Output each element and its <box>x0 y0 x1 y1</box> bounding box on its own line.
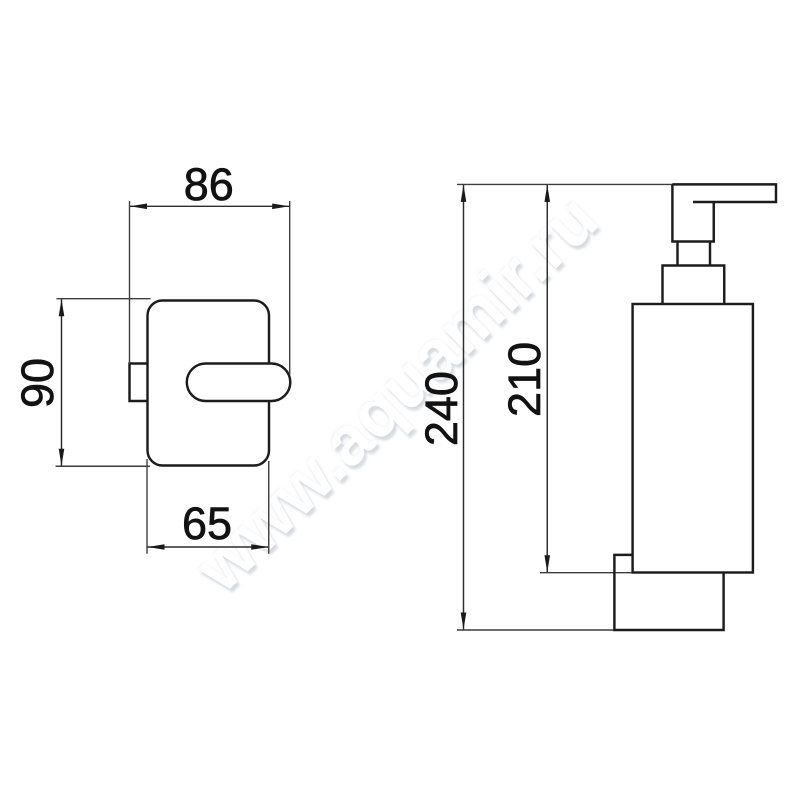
wall plate body (front view, rounded square) <box>148 301 270 466</box>
dim 240 arrow bottom <box>461 613 467 630</box>
dim 90 line <box>61 299 63 466</box>
dim 90 arrow top <box>59 299 65 316</box>
svg-text:86: 86 <box>184 159 234 210</box>
pump neck <box>678 242 711 266</box>
dim 90 extension line top <box>57 298 151 300</box>
bottle body (side view) <box>633 304 753 573</box>
dim 240 bottom extension line <box>457 629 614 631</box>
dim 65 extension line left <box>146 459 148 554</box>
dim 65 arrow left <box>148 544 165 550</box>
dim 65 line <box>148 546 269 548</box>
dim 240 line <box>463 185 465 630</box>
dim 86 arrow right <box>272 204 289 210</box>
dim 210 arrow top <box>544 185 550 202</box>
pump spout (top beam) <box>672 184 776 202</box>
dim 210 arrow bottom <box>544 555 550 572</box>
dim 65 arrow right <box>251 544 268 550</box>
top extension line (right view) <box>457 183 673 185</box>
pump head <box>672 184 713 241</box>
svg-text:65: 65 <box>182 498 232 549</box>
dim 86 extension line right <box>289 201 291 375</box>
dim 86 extension line left <box>129 201 131 364</box>
holder arm pill (front view) <box>187 364 290 402</box>
svg-text:210: 210 <box>499 342 550 417</box>
dim 210 bottom extension line <box>540 572 633 574</box>
svg-text:90: 90 <box>12 358 63 408</box>
pump collar <box>663 266 725 305</box>
dim 86 line <box>130 205 289 207</box>
dim 90 extension line bottom <box>56 465 151 467</box>
dim 240 arrow top <box>461 185 467 202</box>
wall bracket (side view) <box>614 555 723 630</box>
dim 86 arrow left <box>130 204 147 210</box>
dim 210 line <box>546 185 548 572</box>
dim 65 extension line right <box>268 461 270 554</box>
wall plate left tab <box>130 364 148 402</box>
svg-text:240: 240 <box>416 371 467 446</box>
dim 90 arrow bottom <box>59 449 65 466</box>
